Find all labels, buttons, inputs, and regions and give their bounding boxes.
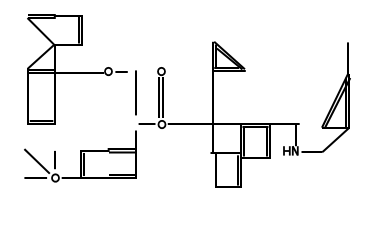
atom N amine letter H right bar <box>289 146 291 155</box>
wire benzene left vertical outer <box>80 150 82 179</box>
wire ring2 bottom edge <box>27 123 56 125</box>
atom N amine letter N left bar <box>292 146 294 155</box>
atom N amine letter N diagonal <box>293 146 298 155</box>
atom O1 ether oxygen letter <box>105 68 112 75</box>
atom N amine letter H crossbar <box>284 150 290 152</box>
wire ring2 bottom double inner <box>30 120 54 122</box>
wire benzene bottom double inner <box>109 174 136 176</box>
wire CH2 to right ring bond <box>323 128 349 152</box>
wire right ring methyl vertical <box>347 42 349 74</box>
wire benzene left vertical inner <box>83 153 85 176</box>
wire ring1 top double bond right cap <box>54 14 56 19</box>
wire benzene top single <box>80 150 110 152</box>
wire ring1 right vertical outer <box>81 15 83 46</box>
wire ring1 top double bond outer <box>28 14 56 16</box>
wire long chain bond O3 to quaternary C <box>168 123 300 125</box>
wire squareB right vertical outer <box>269 124 271 160</box>
wire O4 methyl diagonal <box>24 149 49 174</box>
wire right ring right vertical outer <box>348 74 350 128</box>
wire cyclopropane diagonal <box>28 45 54 69</box>
atom O3 ester oxygen letter <box>159 121 166 128</box>
wire ring2 top bond to O1 <box>28 72 104 74</box>
atom N amine letter N right bar <box>297 146 299 155</box>
wire triangle1 left vertical inner <box>215 45 217 68</box>
wire center vertical triangle to squareA <box>212 42 214 154</box>
wire carbonyl double bond line2 <box>162 77 164 118</box>
wire triangle1 bottom inner <box>214 67 239 69</box>
wire squareA top edge <box>211 152 243 154</box>
wire ring2 top double inner <box>28 69 56 71</box>
wire right ring right vertical inner <box>345 78 347 128</box>
wire squareA bottom edge <box>215 186 242 188</box>
wire right ring left diagonal outer <box>322 74 348 128</box>
wire O4 methyl horizontal <box>24 177 47 179</box>
wire benzene top double upper <box>108 148 137 150</box>
wire squareA left vertical <box>215 153 217 188</box>
wire carbonyl double bond line1 <box>158 77 160 118</box>
wire squareA squareB shared right-left vertical outer <box>240 124 242 189</box>
wire triangle1 bottom outer <box>213 70 246 72</box>
wire chain vertical upper <box>135 70 137 115</box>
wire squareB bottom edge <box>240 157 271 159</box>
wire ring1 top single bond <box>56 15 84 17</box>
wire ring1 right vertical inner <box>78 17 80 44</box>
wire benzene bottom edge and O4 bond <box>62 177 137 179</box>
wire squareB right vertical inner <box>266 127 268 157</box>
wire O4 methyl vertical <box>54 151 56 169</box>
wire bond C to ester O3 <box>139 123 156 125</box>
wire triangle1 hypotenuse inner <box>217 49 243 70</box>
wire N to CH2 bond <box>302 151 323 153</box>
atom O4 methoxy oxygen letter <box>52 174 59 181</box>
wire ring2 left vertical <box>27 68 29 125</box>
wire squareB top inner <box>243 126 269 128</box>
wire ring1 diagonal left edge <box>28 18 55 45</box>
atom O2 carbonyl oxygen letter <box>158 68 165 75</box>
wire ring1 top double bond inner <box>28 17 56 19</box>
wire right ring left diagonal inner <box>325 78 350 127</box>
wire benzene top double lower <box>109 152 137 154</box>
atom N amine letter H left bar <box>283 146 285 155</box>
wire ring1 bottom edge <box>54 44 83 46</box>
wire N methyl vertical <box>295 124 297 147</box>
wire squareB left vertical inner <box>243 127 245 157</box>
wire squareA right vertical inner <box>237 155 239 185</box>
wire right ring bottom edge <box>322 127 350 129</box>
wire triangle1 hypotenuse outer <box>214 42 245 70</box>
wire chain vertical lower <box>135 131 137 180</box>
wire ring2 right vertical <box>54 44 56 125</box>
wire O1 to chain C bond <box>115 71 127 73</box>
